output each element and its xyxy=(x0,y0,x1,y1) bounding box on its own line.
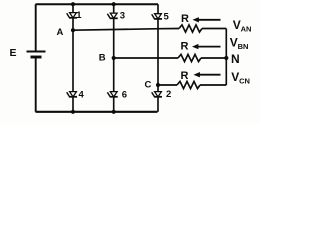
designator label 5 xyxy=(164,11,170,22)
wire bottom rail xyxy=(36,111,158,113)
value label R (phase A) xyxy=(181,13,189,25)
wire top rail xyxy=(36,3,159,5)
resistor R (phase A) xyxy=(179,25,202,32)
svg-text:C: C xyxy=(145,80,152,91)
wire left vertical upper xyxy=(35,4,37,51)
resistor R (phase C) xyxy=(177,81,200,88)
designator label 1 xyxy=(76,10,82,21)
svg-text:E: E xyxy=(10,47,17,59)
svg-text:N: N xyxy=(231,52,240,66)
arrow V_BN annotation xyxy=(192,44,221,49)
svg-text:AN: AN xyxy=(241,24,252,33)
svg-text:3: 3 xyxy=(120,10,125,21)
svg-text:CN: CN xyxy=(239,77,250,86)
wire node C to resistor row C xyxy=(158,84,177,86)
label V_AN xyxy=(233,18,252,33)
node A xyxy=(71,28,75,32)
label A xyxy=(57,27,64,38)
thyristor 5 xyxy=(152,4,162,85)
junction dot top rail col 3 xyxy=(112,2,116,6)
resistor R (phase B) xyxy=(178,54,201,61)
label N xyxy=(231,52,240,66)
thyristor 1 xyxy=(67,4,77,30)
arrow V_CN annotation xyxy=(194,72,221,77)
battery E xyxy=(27,52,46,58)
node B xyxy=(112,56,116,60)
svg-text:B: B xyxy=(99,53,106,64)
svg-text:R: R xyxy=(181,41,189,53)
designator label 2 xyxy=(166,89,171,100)
wire resistor C to N column xyxy=(200,84,226,86)
junction dot bottom rail col 3 xyxy=(112,110,116,114)
thyristor 2 xyxy=(152,85,162,112)
svg-text:4: 4 xyxy=(79,90,85,101)
value label R (phase C) xyxy=(181,70,189,82)
label V_BN xyxy=(230,36,249,51)
thyristor 4 xyxy=(67,30,77,112)
svg-text:BN: BN xyxy=(238,42,249,51)
node N xyxy=(224,56,228,60)
svg-text:6: 6 xyxy=(122,90,127,101)
svg-text:R: R xyxy=(181,13,189,25)
junction dot bottom rail col 1 xyxy=(71,110,75,114)
thyristor 3 xyxy=(107,4,117,58)
designator label 3 xyxy=(120,10,125,21)
svg-text:A: A xyxy=(57,27,64,38)
svg-text:5: 5 xyxy=(164,11,170,22)
label V_CN xyxy=(231,70,250,86)
arrow V_AN annotation xyxy=(193,17,221,22)
wire resistor B to node N xyxy=(201,57,226,59)
wire node A to resistor row A xyxy=(73,29,179,31)
svg-text:R: R xyxy=(181,70,189,82)
node C xyxy=(156,83,160,87)
label E xyxy=(10,47,17,59)
designator label 4 xyxy=(79,90,85,101)
wire node B to resistor row B xyxy=(114,57,178,59)
label C xyxy=(145,80,152,91)
wire resistor A to N column xyxy=(202,28,226,30)
svg-text:1: 1 xyxy=(76,10,82,21)
wire N column vertical xyxy=(225,29,227,86)
junction dot top rail col 1 xyxy=(71,2,75,6)
value label R (phase B) xyxy=(181,41,189,53)
designator label 6 xyxy=(122,90,127,101)
svg-text:2: 2 xyxy=(166,89,171,100)
label B xyxy=(99,53,106,64)
thyristor 6 xyxy=(107,58,117,112)
wire left vertical lower xyxy=(35,57,37,112)
